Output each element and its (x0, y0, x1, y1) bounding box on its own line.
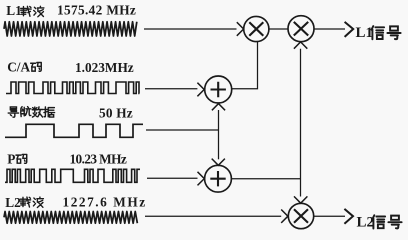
waveform P code (5, 169, 140, 182)
arrow L2 output (344, 209, 353, 224)
svg-text:L1: L1 (356, 25, 374, 41)
arrow up into mixer M2 (294, 42, 307, 49)
node N1 branch up into adder A1 (218, 110, 220, 130)
svg-text:C/A: C/A (7, 60, 30, 75)
svg-text:L2: L2 (5, 195, 21, 210)
svg-text:L1: L1 (6, 3, 22, 18)
arrow L1 output (345, 22, 354, 37)
arrow into adder A1 (197, 83, 204, 97)
CJK char hao (L1 out) (387, 26, 400, 39)
arrow into adder A2 (198, 172, 205, 186)
arrow into mixer M3 (281, 210, 288, 223)
wire A1 output up to mixer M1 (232, 42, 258, 89)
svg-text:1227.6 MHz: 1227.6 MHz (63, 194, 147, 209)
waveform C/A code (6, 82, 139, 94)
wire C/A to adder A1 (145, 88, 197, 90)
mixer M3 (288, 203, 313, 228)
wire M1 to M2 (269, 28, 288, 30)
svg-text:1575.42 MHz: 1575.42 MHz (57, 3, 136, 18)
svg-text:L2: L2 (357, 214, 375, 230)
CJK char zai (row1) (21, 6, 31, 16)
adder A2 (205, 165, 232, 192)
wire L2 carrier to mixer M3 (145, 215, 281, 217)
waveform L2 carrier sine (4, 212, 137, 224)
arrow into mixer M1 (237, 22, 244, 36)
CJK char ma (row4) (16, 154, 27, 163)
mixer M1 (244, 16, 269, 41)
CJK char zai (row5) (20, 197, 30, 207)
wire M2 to L1 output (314, 28, 345, 30)
CJK char shu (row3) (32, 107, 43, 117)
CJK char hang (row3) (21, 107, 31, 117)
node N1 branch down into adder A2 (218, 130, 220, 159)
mixer M2 (288, 16, 314, 42)
svg-text:10.23 MHz: 10.23 MHz (70, 151, 127, 166)
node N2 vertical between mixer M2 and mixer M3 (300, 49, 302, 197)
CJK char dao (row3) (8, 107, 18, 117)
CJK char xin (L1 out) (372, 26, 385, 39)
CJK char hao (L2 out) (388, 216, 401, 229)
svg-text:1.023MHz: 1.023MHz (75, 60, 134, 75)
wire nav data to node N1 (146, 129, 219, 131)
svg-text:P: P (7, 151, 15, 166)
adder A1 (205, 76, 232, 103)
waveform nav data (5, 124, 143, 137)
svg-text:50 Hz: 50 Hz (99, 105, 133, 120)
wire A2 output to node N2 (231, 178, 300, 180)
CJK char ju (row3) (44, 107, 55, 117)
wire P code to adder A2 (147, 177, 198, 179)
CJK char bo (row1) (34, 6, 44, 16)
arrow down into mixer M3 (294, 196, 307, 203)
waveform L1 carrier sine (4, 22, 137, 36)
wire M3 to L2 output (314, 215, 345, 217)
arrow down into adder A2 (212, 159, 225, 166)
wire L1 carrier to mixer M1 (144, 28, 237, 30)
arrow up into adder A1 (212, 104, 225, 111)
CJK char bo (row5) (33, 197, 43, 207)
CJK char xin (L2 out) (373, 215, 386, 228)
CJK char ma (row2) (31, 63, 42, 72)
